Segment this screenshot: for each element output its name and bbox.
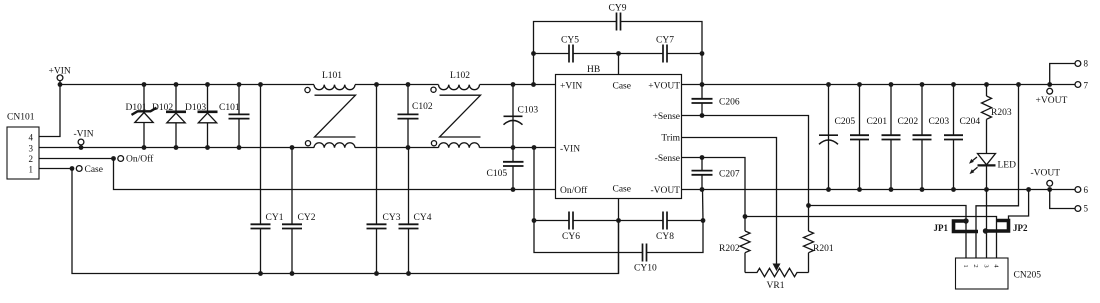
svg-text:C202: C202 xyxy=(898,117,919,127)
svg-text:8: 8 xyxy=(1084,59,1089,69)
svg-text:C207: C207 xyxy=(719,170,740,180)
wire CY8 vertical to -VOUT rail xyxy=(702,190,705,221)
jumper JP2 xyxy=(983,221,1028,234)
wire CN101 pin2 to On/Off terminal xyxy=(39,158,114,160)
potentiometer VR1 xyxy=(745,264,809,292)
svg-text:1: 1 xyxy=(962,264,969,267)
svg-text:CY9: CY9 xyxy=(609,4,627,14)
svg-text:CY7: CY7 xyxy=(656,36,674,46)
terminal 6 xyxy=(1075,185,1089,195)
svg-text:L102: L102 xyxy=(450,71,470,81)
wire HB top Case pin xyxy=(618,54,620,75)
capacitor CY5 xyxy=(561,36,619,63)
node CY5 rail left xyxy=(531,51,536,56)
svg-text:CY8: CY8 xyxy=(656,232,674,242)
svg-text:HB: HB xyxy=(587,65,600,75)
wire Trim row xyxy=(682,138,777,267)
diode D101 xyxy=(126,82,157,150)
svg-text:-Sense: -Sense xyxy=(655,154,680,164)
node CY8 rail right xyxy=(701,218,706,223)
capacitor C101 xyxy=(219,82,250,150)
terminal Case xyxy=(70,165,103,175)
diode D102 xyxy=(152,82,186,150)
node case bottom xyxy=(616,218,621,223)
svg-text:CN205: CN205 xyxy=(1014,271,1042,281)
terminal -VIN xyxy=(74,130,94,150)
capacitor C102 xyxy=(398,82,433,150)
svg-text:C204: C204 xyxy=(960,117,981,127)
wire CN101 pin4 to +VIN node xyxy=(39,85,60,137)
wire Case net down and along bottom xyxy=(72,169,619,274)
wire CN101 pin1 to Case terminal xyxy=(39,168,72,170)
svg-text:Case: Case xyxy=(613,184,631,194)
capacitor CY10 xyxy=(634,244,657,274)
diode D103 xyxy=(185,82,218,150)
inductor L102 (common-mode choke) xyxy=(431,71,481,148)
svg-text:On/Off: On/Off xyxy=(126,154,154,165)
LED xyxy=(969,154,1016,192)
svg-text:R202: R202 xyxy=(719,244,740,254)
svg-text:+VOUT: +VOUT xyxy=(1036,96,1068,106)
svg-text:JP1: JP1 xyxy=(934,223,949,233)
svg-text:JP2: JP2 xyxy=(1013,223,1028,233)
capacitor C206 xyxy=(692,82,740,118)
wire -Sense branch row to JP2 pin4 xyxy=(745,217,997,222)
wire LED node down to JP2 pin3 / CN205 xyxy=(986,190,988,259)
svg-text:-VOUT: -VOUT xyxy=(650,186,680,196)
svg-text:+VIN: +VIN xyxy=(560,81,582,91)
terminal -VOUT xyxy=(1031,169,1061,192)
svg-text:1: 1 xyxy=(29,164,34,174)
svg-text:-VOUT: -VOUT xyxy=(1031,169,1061,179)
node CY7 rail right xyxy=(700,51,705,56)
svg-text:C205: C205 xyxy=(835,117,856,127)
wire -Sense row xyxy=(682,158,746,232)
resistor R201 xyxy=(804,206,834,273)
svg-text:2: 2 xyxy=(972,264,979,267)
capacitor CY1 xyxy=(251,82,284,276)
capacitor C103 (polarized) xyxy=(504,82,539,150)
wire JP2 pin4 down to CN205 xyxy=(996,221,998,258)
capacitor C203 xyxy=(913,82,950,192)
terminal +VIN xyxy=(49,67,71,87)
wire -VOUT drop to JP2 right leg xyxy=(1009,190,1029,222)
svg-text:CY3: CY3 xyxy=(383,213,401,223)
svg-text:7: 7 xyxy=(1084,81,1089,91)
capacitor CY8 xyxy=(619,212,704,243)
wire CY5/CY7 rail left segment with vertical to +VIN rail xyxy=(534,54,570,85)
svg-text:CY2: CY2 xyxy=(298,213,316,223)
node -Sense junction xyxy=(743,214,748,219)
svg-text:LED: LED xyxy=(998,161,1017,171)
capacitor CY9 xyxy=(609,4,627,31)
wire CY6 rail left segment with vertical to -VIN rail xyxy=(534,148,569,221)
capacitor C205 (polarized) xyxy=(819,82,855,192)
capacitor C201 xyxy=(850,82,887,192)
capacitor CY2 xyxy=(282,145,316,276)
svg-text:CY6: CY6 xyxy=(562,232,580,242)
svg-text:C101: C101 xyxy=(219,103,240,113)
svg-text:C105: C105 xyxy=(487,169,508,179)
svg-text:+VOUT: +VOUT xyxy=(648,81,680,91)
svg-text:VR1: VR1 xyxy=(767,281,785,291)
svg-text:-VIN: -VIN xyxy=(74,130,94,140)
capacitor CY6 xyxy=(562,212,619,243)
svg-text:C103: C103 xyxy=(518,106,539,116)
wire CY7 vertical to +VOUT rail xyxy=(701,54,703,85)
svg-text:C206: C206 xyxy=(719,98,740,108)
wire CY9 rail with end verticals xyxy=(534,22,617,54)
wire +VOUT drop to JP1 pin2 xyxy=(976,85,1019,259)
svg-text:2: 2 xyxy=(29,154,34,164)
svg-text:R203: R203 xyxy=(991,108,1012,118)
node case top xyxy=(616,51,621,56)
node +Sense junction xyxy=(806,203,811,208)
wire +Sense row xyxy=(682,116,809,206)
terminal 5 xyxy=(1050,190,1089,214)
svg-text:CN101: CN101 xyxy=(7,113,35,123)
svg-text:R201: R201 xyxy=(813,244,834,254)
svg-text:On/Off: On/Off xyxy=(560,185,588,196)
wire +VOUT rail xyxy=(682,84,1050,86)
terminal 8 xyxy=(1050,59,1089,85)
svg-text:3: 3 xyxy=(29,143,34,153)
connector CN205 xyxy=(956,258,1042,289)
svg-text:-VIN: -VIN xyxy=(560,144,580,154)
wire On/Off net down and right to HB xyxy=(114,159,556,190)
wire +Sense branch row to JP1 pin1 xyxy=(809,206,967,259)
svg-text:4: 4 xyxy=(29,132,34,142)
inductor L101 (common-mode choke) xyxy=(305,71,356,148)
capacitor C207 xyxy=(692,155,740,192)
capacitor CY4 xyxy=(399,148,432,276)
svg-text:CY10: CY10 xyxy=(634,264,657,274)
svg-text:C203: C203 xyxy=(929,117,950,127)
connector CN101 xyxy=(7,113,39,180)
terminal 7 xyxy=(1050,81,1089,91)
svg-text:CY5: CY5 xyxy=(561,36,579,46)
terminal On/Off xyxy=(111,154,154,165)
wire -VIN rail (CN101 pin3 to HB) xyxy=(39,147,314,149)
svg-text:Trim: Trim xyxy=(661,134,680,144)
capacitor C105 xyxy=(487,148,524,192)
svg-text:Case: Case xyxy=(613,81,631,91)
terminal +VOUT xyxy=(1036,82,1068,106)
resistor R203 xyxy=(982,82,1012,153)
module HB (DC/DC converter) xyxy=(556,65,682,199)
svg-text:CY1: CY1 xyxy=(266,213,284,223)
svg-text:5: 5 xyxy=(1084,204,1089,214)
svg-text:3: 3 xyxy=(983,264,990,267)
svg-text:C102: C102 xyxy=(412,102,433,112)
capacitor C202 xyxy=(882,82,919,192)
wire -VOUT rail xyxy=(682,189,1076,191)
svg-text:Case: Case xyxy=(85,165,103,175)
svg-text:6: 6 xyxy=(1084,185,1089,195)
svg-text:CY4: CY4 xyxy=(414,213,432,223)
wire +VIN rail xyxy=(60,84,314,86)
capacitor CY7 xyxy=(619,36,703,63)
capacitor C204 xyxy=(944,82,980,192)
capacitor CY3 xyxy=(367,82,401,276)
svg-text:+Sense: +Sense xyxy=(652,112,680,122)
wire HB bottom Case pin to case rail xyxy=(618,199,620,274)
wire CY10 rail with end verticals xyxy=(534,221,643,253)
svg-text:C201: C201 xyxy=(867,117,888,127)
svg-text:L101: L101 xyxy=(322,71,342,81)
jumper JP1 xyxy=(934,218,979,233)
resistor R202 xyxy=(719,231,750,273)
